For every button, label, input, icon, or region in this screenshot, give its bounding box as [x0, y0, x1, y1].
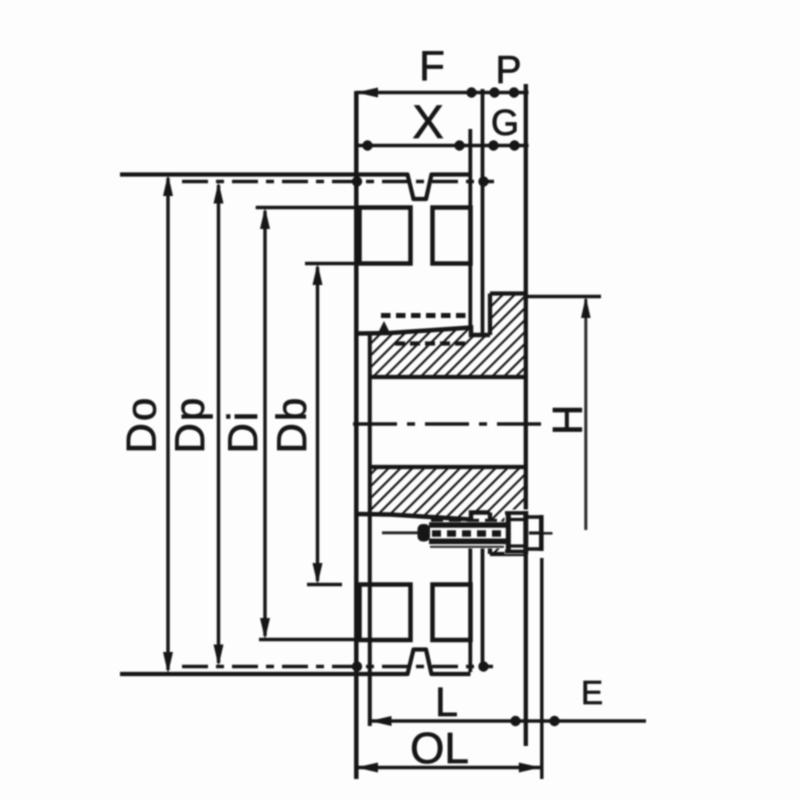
hidden keyway line (dashed): [381, 313, 466, 318]
hub top edge and taper line: [357, 328, 491, 336]
plate right face extension line (upper): [468, 129, 472, 329]
dimension Db vertical line with arrows: [313, 264, 323, 585]
label X: [412, 95, 443, 148]
top-left web window: [360, 208, 411, 264]
svg-text:Di: Di: [219, 410, 266, 454]
top-right web window: [433, 208, 471, 264]
svg-text:L: L: [435, 679, 458, 725]
label Di (rotated): [219, 410, 266, 454]
bushing flange left face (lower): [488, 513, 492, 555]
label Do (rotated): [118, 396, 165, 454]
dimension line X / G: [356, 140, 528, 150]
bushing flange left face (upper): [488, 294, 492, 336]
centerline (dash-dot): [353, 422, 551, 426]
bottom-right web window: [433, 585, 471, 641]
bushing split tick (top): [378, 321, 390, 333]
bottom-left web window: [360, 585, 411, 641]
bushing flange bottom edge: [490, 552, 527, 556]
E extension line (screw head face): [540, 558, 543, 779]
bottom tooth tip line with tooth notch: [120, 650, 471, 675]
hatched bushing/hub section upper half: [370, 294, 527, 378]
svg-text:OL: OL: [410, 724, 469, 773]
dimension Di vertical line with arrows: [260, 208, 270, 640]
label P: [495, 49, 521, 92]
dimension Dp vertical line with arrows: [214, 182, 224, 666]
Db top reference line: [305, 262, 359, 265]
label Db (rotated): [268, 396, 315, 454]
label H (rotated): [544, 405, 591, 435]
dimension line F / P: [356, 87, 528, 97]
label OL: [410, 724, 469, 773]
svg-text:F: F: [419, 42, 445, 89]
svg-text:H: H: [544, 405, 591, 435]
hatched bushing/hub section lower half: [370, 467, 527, 556]
bore top edge: [371, 375, 527, 379]
hub bottom edge and taper line: [357, 513, 491, 520]
label G: [491, 102, 519, 143]
sprocket plate left face / extension line: [354, 91, 359, 779]
label F: [419, 42, 445, 89]
set screw axis line (right): [544, 532, 553, 535]
top pitch line (dash-dot): [182, 176, 494, 186]
dimension Do vertical line with arrows: [163, 175, 173, 674]
bushing flange top edge: [490, 291, 527, 295]
H top reference line: [527, 295, 601, 298]
label L: [435, 679, 458, 725]
bushing slit extension line (upper): [481, 89, 485, 334]
set screw axis line (left): [382, 531, 419, 534]
set screw threaded shaft: [429, 520, 507, 547]
Di top reference line: [256, 206, 357, 209]
svg-text:P: P: [495, 49, 521, 92]
dimension line L / E: [370, 716, 646, 726]
set screw head: [505, 511, 528, 554]
set screw tip: [418, 524, 431, 542]
bushing slit extension line (lower): [481, 545, 485, 670]
dimension line OL: [356, 763, 540, 773]
svg-text:G: G: [491, 102, 519, 143]
bushing flange right face / extension line: [524, 84, 528, 746]
top tooth tip line with tooth notch: [120, 175, 471, 200]
bushing left face / L extension line: [368, 334, 372, 727]
svg-text:X: X: [412, 95, 443, 148]
svg-text:Dp: Dp: [166, 396, 213, 454]
bore bottom edge: [371, 465, 527, 469]
Db bottom reference line: [307, 583, 342, 586]
hidden keyway depth line (dashed, in hatch): [395, 341, 465, 345]
svg-text:E: E: [581, 674, 603, 711]
svg-text:Db: Db: [268, 396, 315, 454]
dimension H vertical line with arrow: [581, 297, 591, 531]
label Dp (rotated): [166, 396, 213, 454]
label E: [581, 674, 603, 711]
bottom pitch line (dash-dot): [182, 661, 493, 671]
set screw white background: [414, 510, 547, 555]
Di bottom reference line: [259, 638, 357, 641]
plate right face extension line (lower): [468, 548, 472, 672]
set screw head outer cap: [528, 515, 541, 551]
svg-text:Do: Do: [118, 396, 165, 454]
